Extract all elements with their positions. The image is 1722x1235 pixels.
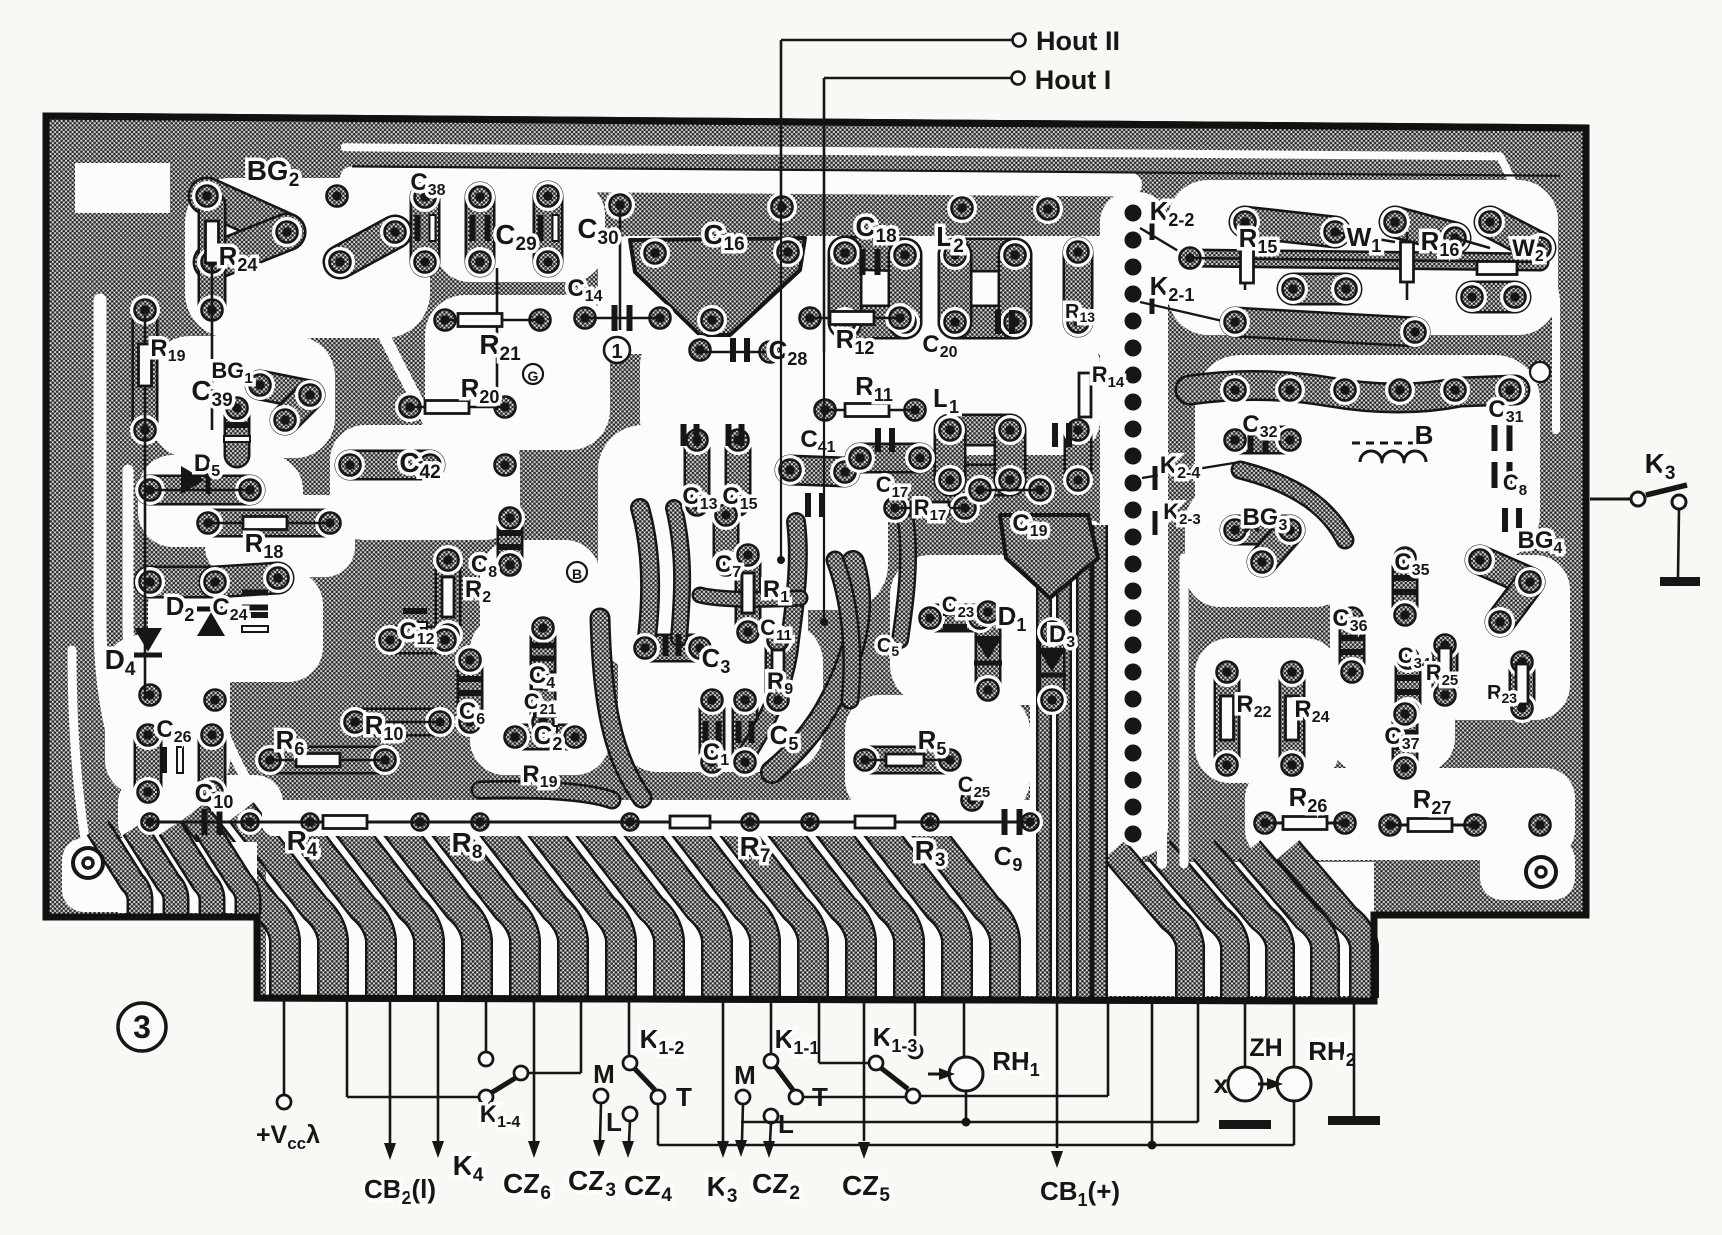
svg-text:B: B	[1415, 420, 1434, 450]
svg-text:L: L	[606, 1107, 622, 1137]
svg-text:M: M	[734, 1060, 756, 1090]
svg-text:3: 3	[133, 1009, 151, 1045]
svg-text:x: x	[1214, 1069, 1229, 1099]
svg-text:M: M	[593, 1059, 615, 1089]
svg-text:G: G	[528, 368, 539, 384]
svg-text:T: T	[676, 1082, 692, 1112]
svg-text:B: B	[572, 566, 582, 582]
svg-text:ZH: ZH	[1249, 1034, 1282, 1062]
svg-text:1: 1	[611, 341, 622, 363]
svg-text:L: L	[778, 1109, 794, 1139]
svg-text:Hout I: Hout I	[1035, 65, 1111, 95]
svg-text:Hout II: Hout II	[1036, 26, 1120, 56]
svg-text:CB2(l): CB2(l)	[364, 1174, 436, 1208]
